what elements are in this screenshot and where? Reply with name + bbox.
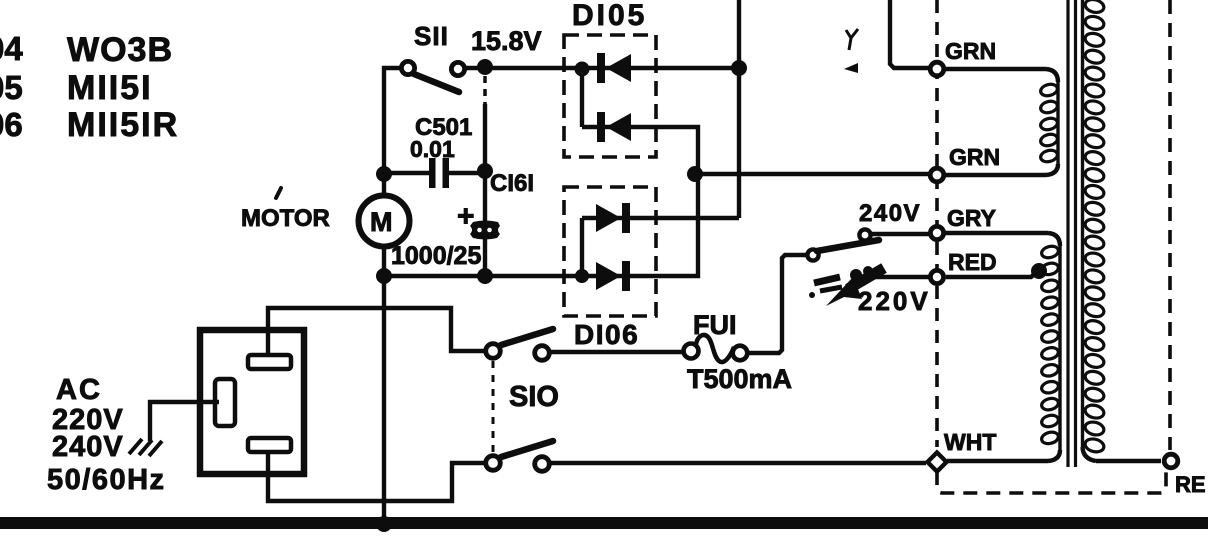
svg-text:WHT: WHT <box>944 429 996 455</box>
svg-text:MOTOR: MOTOR <box>241 205 330 232</box>
svg-text:05: 05 <box>0 69 23 106</box>
svg-text:04: 04 <box>0 30 23 67</box>
svg-text:AC: AC <box>56 374 102 406</box>
svg-text:220V: 220V <box>858 286 931 316</box>
svg-text:240V: 240V <box>859 200 921 227</box>
svg-text:SIO: SIO <box>509 381 559 413</box>
svg-text:MII5I: MII5I <box>67 69 153 107</box>
svg-text:RE: RE <box>1175 472 1206 497</box>
svg-text:T500mA: T500mA <box>687 364 792 394</box>
svg-text:M: M <box>370 207 393 237</box>
svg-text:50/60Hz: 50/60Hz <box>47 464 166 496</box>
svg-text:CI6I: CI6I <box>490 170 534 197</box>
svg-text:+: + <box>457 200 475 233</box>
svg-text:FUI: FUI <box>693 310 737 340</box>
svg-text:GRN: GRN <box>949 144 1000 170</box>
svg-text:06: 06 <box>0 106 23 143</box>
svg-text:GRY: GRY <box>947 205 996 231</box>
svg-text:0.01: 0.01 <box>410 136 455 162</box>
svg-text:GRN: GRN <box>945 38 996 64</box>
svg-text:240V: 240V <box>52 431 124 463</box>
svg-text:RED: RED <box>948 249 997 275</box>
svg-text:SII: SII <box>414 21 449 51</box>
svg-text:DI06: DI06 <box>574 319 639 350</box>
svg-text:DI05: DI05 <box>572 0 647 32</box>
svg-text:1000/25: 1000/25 <box>391 242 481 270</box>
svg-text:WO3B: WO3B <box>67 31 173 69</box>
svg-text:15.8V: 15.8V <box>471 26 542 56</box>
svg-text:MII5IR: MII5IR <box>67 106 179 144</box>
